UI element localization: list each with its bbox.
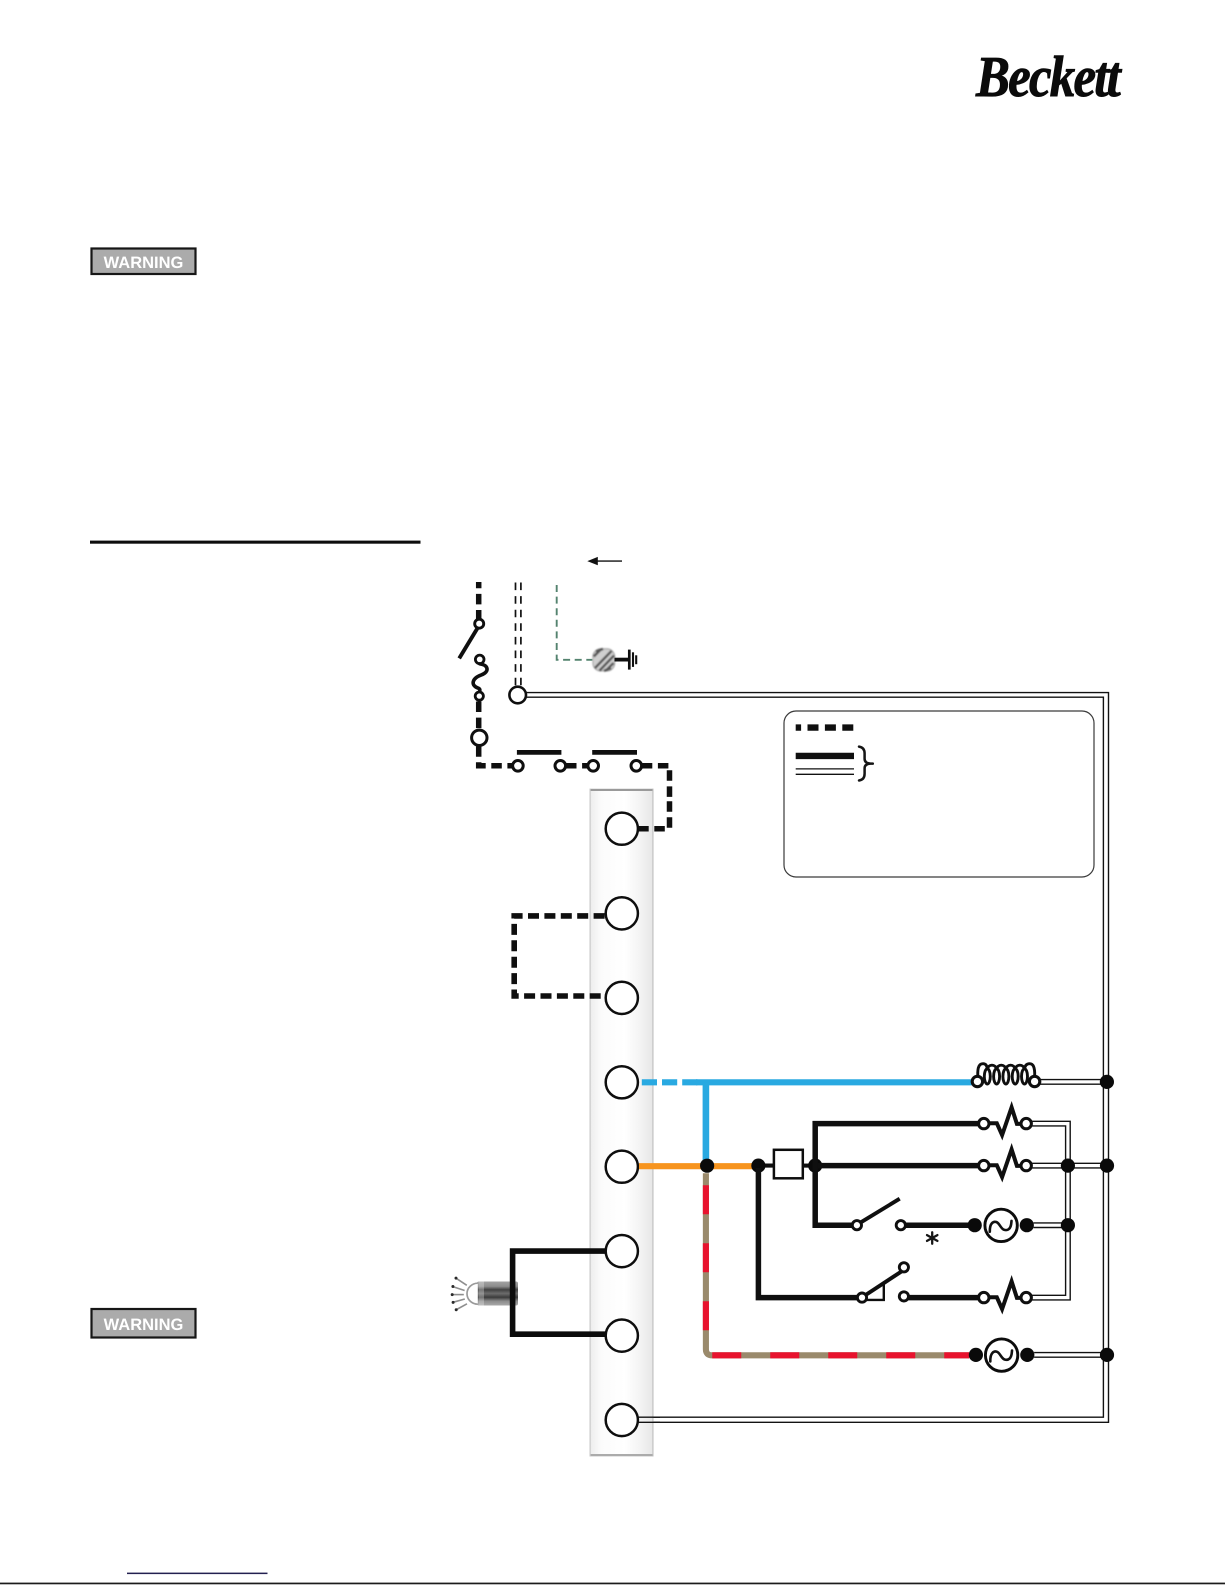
- wire: rung1 double line return: [1031, 1121, 1070, 1300]
- switch: ignition interrupt: [852, 1199, 905, 1230]
- wire: tan/red striped valve wire: [706, 1173, 969, 1355]
- node: neutral junction: [509, 687, 526, 704]
- wire: blue solid segment to motor: [696, 1079, 973, 1085]
- footer rule: [0, 1583, 1225, 1585]
- asterisk label: [927, 1232, 937, 1243]
- cad cell / sensor bulb: [451, 1277, 518, 1312]
- disconnect switch: [459, 619, 484, 658]
- terminal T7: [606, 1320, 638, 1352]
- node: valve left: [969, 1348, 983, 1362]
- wire: valve double line return: [1034, 1353, 1106, 1358]
- resistor: igniter element 3: [979, 1281, 1032, 1309]
- legend brace: [859, 747, 873, 781]
- terminal T4: [606, 1066, 638, 1098]
- svg-text:WARNING: WARNING: [104, 1316, 184, 1334]
- limit control switch 2: [588, 752, 642, 771]
- switch: safety reset: [857, 1263, 908, 1302]
- node: relay right: [808, 1159, 822, 1173]
- wire: transformer double line return: [1034, 1223, 1068, 1228]
- wire: thick loop T6-T7 to cad cell: [513, 1251, 606, 1334]
- node: thin bus / rung3: [1061, 1218, 1075, 1232]
- wire: dashed leg to limit control chain: [479, 746, 513, 766]
- terminal strip: [590, 789, 654, 1457]
- wire: dash between limit controls: [566, 763, 588, 769]
- node: transformer left: [968, 1218, 982, 1232]
- wire: dashed into terminal T1: [638, 797, 669, 829]
- warning box 2: [92, 1309, 196, 1338]
- section rule: [90, 541, 421, 544]
- wire: to igniter element 3: [909, 1295, 979, 1301]
- wire: double line stub at terminal T8: [638, 1417, 660, 1422]
- fuse / flexible loop symbol: [473, 655, 487, 700]
- wire: orange from T5: [639, 1163, 753, 1169]
- ground symbol: [629, 650, 636, 670]
- wire: blue dashed segment from T4: [642, 1079, 699, 1085]
- svg-text:WARNING: WARNING: [104, 254, 184, 272]
- node: relay left: [751, 1159, 765, 1173]
- terminal T1: [606, 813, 638, 845]
- wire: blue vertical drop: [703, 1082, 710, 1163]
- AC source: oil valve: [985, 1339, 1017, 1371]
- node: valve right: [1020, 1348, 1034, 1362]
- resistor: igniter element 2: [979, 1149, 1032, 1177]
- node: main bus / motor: [1100, 1075, 1114, 1089]
- arrow pointing to disconnect switch: [587, 557, 622, 565]
- legend thick wire sample: [796, 753, 854, 759]
- wire: rung2 double line return: [1031, 1163, 1108, 1168]
- wire: branch down to ignition switch rung: [815, 1163, 852, 1225]
- terminal T5: [606, 1151, 638, 1183]
- limit control switch 1: [513, 752, 566, 771]
- wire: green ground wire: [557, 585, 593, 660]
- wire: rung 2 thick to igniter resistor: [815, 1163, 979, 1169]
- AC source: ignition transformer: [985, 1209, 1017, 1241]
- relay coil box: [774, 1150, 803, 1179]
- wire nut: [593, 649, 615, 671]
- terminal T3: [606, 982, 638, 1014]
- wire: dashed hot supply leg (top segment): [476, 582, 482, 619]
- svg-text:Beckett: Beckett: [975, 44, 1122, 109]
- terminal T8: [606, 1404, 638, 1436]
- warning box 1: [92, 249, 196, 275]
- wire: branch down to safety switch rung: [758, 1168, 857, 1298]
- legend double line sample: [796, 769, 854, 774]
- junction node: [472, 730, 487, 745]
- inductor: burner motor: [972, 1064, 1040, 1087]
- footer link underline: [127, 1573, 268, 1575]
- node: transformer right: [1020, 1218, 1034, 1232]
- terminal T6: [606, 1235, 638, 1267]
- wire: motor double line return: [1041, 1080, 1107, 1085]
- wire: branch up to rung 1: [815, 1124, 979, 1168]
- wire: neutral return double line loop: [526, 693, 1108, 1423]
- terminal T2: [606, 897, 638, 929]
- wire to ground: [615, 658, 629, 662]
- wire: relay box to node: [803, 1164, 818, 1168]
- node: thin bus / rung2: [1061, 1159, 1075, 1173]
- wire: dashed hot leg below fuse: [476, 702, 482, 730]
- node: main bus / rung2: [1100, 1159, 1114, 1173]
- wire: dashed drop to terminal 1: [642, 766, 670, 799]
- wire: dashed thermostat jumper T2-T3: [514, 916, 604, 996]
- legend dashed wire sample: [796, 724, 854, 730]
- wire: neutral dashed pair: [516, 583, 521, 686]
- wire: link to relay box: [752, 1164, 774, 1168]
- node: main bus / valve: [1100, 1348, 1114, 1362]
- resistor: igniter element 1: [979, 1107, 1032, 1135]
- node: blue/orange/red junction: [700, 1159, 714, 1173]
- wire: to ignition transformer: [905, 1222, 970, 1228]
- legend box: [784, 711, 1094, 877]
